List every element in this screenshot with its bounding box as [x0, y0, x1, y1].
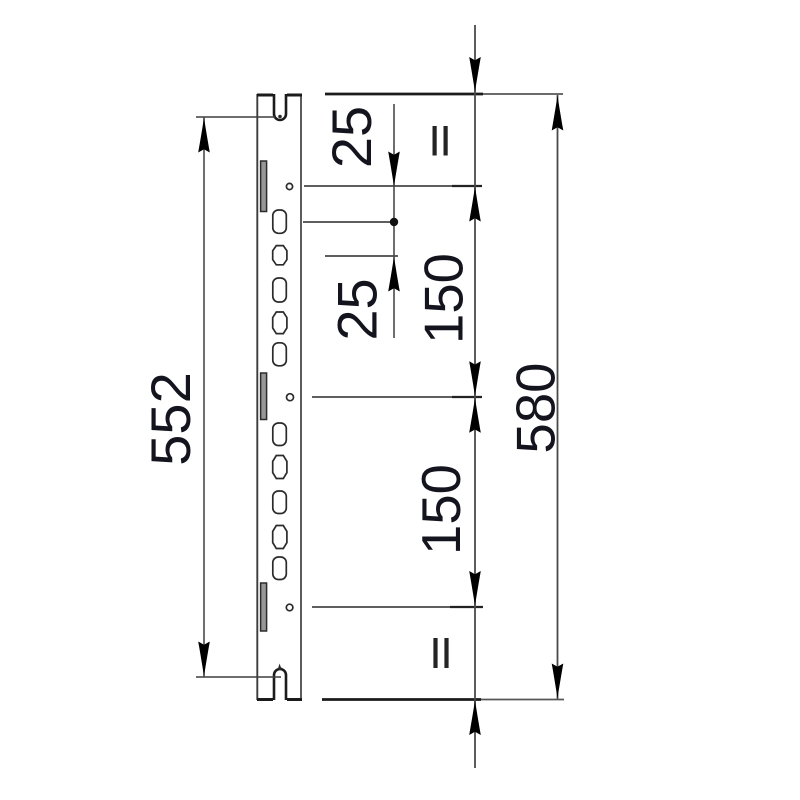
- rail slot A5: [273, 491, 287, 514]
- chain dimension line x475: [474, 25, 476, 768]
- rail slot B2: [273, 312, 287, 334]
- rail hole circle 3: [286, 604, 293, 611]
- rail slot A2: [273, 278, 287, 302]
- rail slot B1: [273, 246, 287, 265]
- rail slot B3: [273, 456, 287, 479]
- rail slot A6: [273, 557, 287, 580]
- svg-text:580: 580: [506, 363, 567, 454]
- rail hole circle 2: [287, 394, 294, 401]
- rail bottom edge with notch opening: [257, 698, 302, 701]
- arrow 552 up: [198, 118, 210, 153]
- arrow 25 down to y186: [388, 152, 400, 187]
- rail slot A4: [273, 423, 287, 446]
- svg-text:150: 150: [411, 464, 472, 555]
- equal-spacing symbol bottom: [433, 638, 437, 668]
- rail slot A1: [273, 210, 287, 233]
- svg-text:150: 150: [414, 253, 475, 344]
- arrow 552 down: [198, 642, 210, 677]
- rail top edge with notch opening: [257, 94, 302, 97]
- extension line slot A1 center y222: [303, 221, 392, 223]
- rail top U-notch: [274, 94, 286, 120]
- bottom notch apex tick: [278, 664, 282, 670]
- svg-text:552: 552: [139, 372, 202, 465]
- dot terminator y222: [390, 218, 398, 226]
- rail bottom U-notch: [274, 669, 286, 700]
- equal-spacing symbol top: [433, 126, 437, 156]
- chain arrow up from y397: [469, 398, 481, 433]
- extension line slot B1 center y256: [325, 255, 398, 257]
- chain arrow up to y186: [469, 187, 481, 222]
- bottom notch datum dot: [278, 667, 281, 670]
- extension line 552 bottom: [196, 676, 281, 678]
- rail weld slot 1: [261, 161, 267, 212]
- rail weld slot 2: [261, 373, 267, 420]
- dimension line 552: [203, 117, 205, 677]
- bottom object line: [322, 699, 564, 701]
- rail left edge: [256, 94, 258, 700]
- top notch datum dot: [278, 115, 282, 119]
- rail right edge: [300, 94, 302, 700]
- extension line hole3 center y607: [312, 606, 483, 608]
- extension line 552 top: [196, 116, 275, 118]
- arrow 25 up to y256: [388, 257, 400, 292]
- rail slot A3: [273, 343, 287, 366]
- chain arrow down to top line: [469, 57, 481, 92]
- svg-text:25: 25: [320, 106, 383, 168]
- rail slot B4: [273, 526, 287, 549]
- rail weld slot 3: [261, 583, 267, 631]
- extension line hole1 center y186: [304, 185, 481, 187]
- svg-text:25: 25: [326, 278, 389, 340]
- chain arrow down to y397: [469, 361, 481, 396]
- dimension line 25 pair x394: [393, 104, 395, 338]
- arrow 580 up: [552, 96, 564, 131]
- chain arrow up to bottom line: [469, 700, 481, 735]
- rail hole circle 1: [286, 183, 292, 189]
- arrow 580 down: [552, 664, 564, 699]
- dimension line 580: [557, 95, 559, 699]
- chain arrow down to y607: [469, 571, 481, 606]
- extension line hole2 center y397: [312, 396, 482, 398]
- top object line: [325, 93, 563, 95]
